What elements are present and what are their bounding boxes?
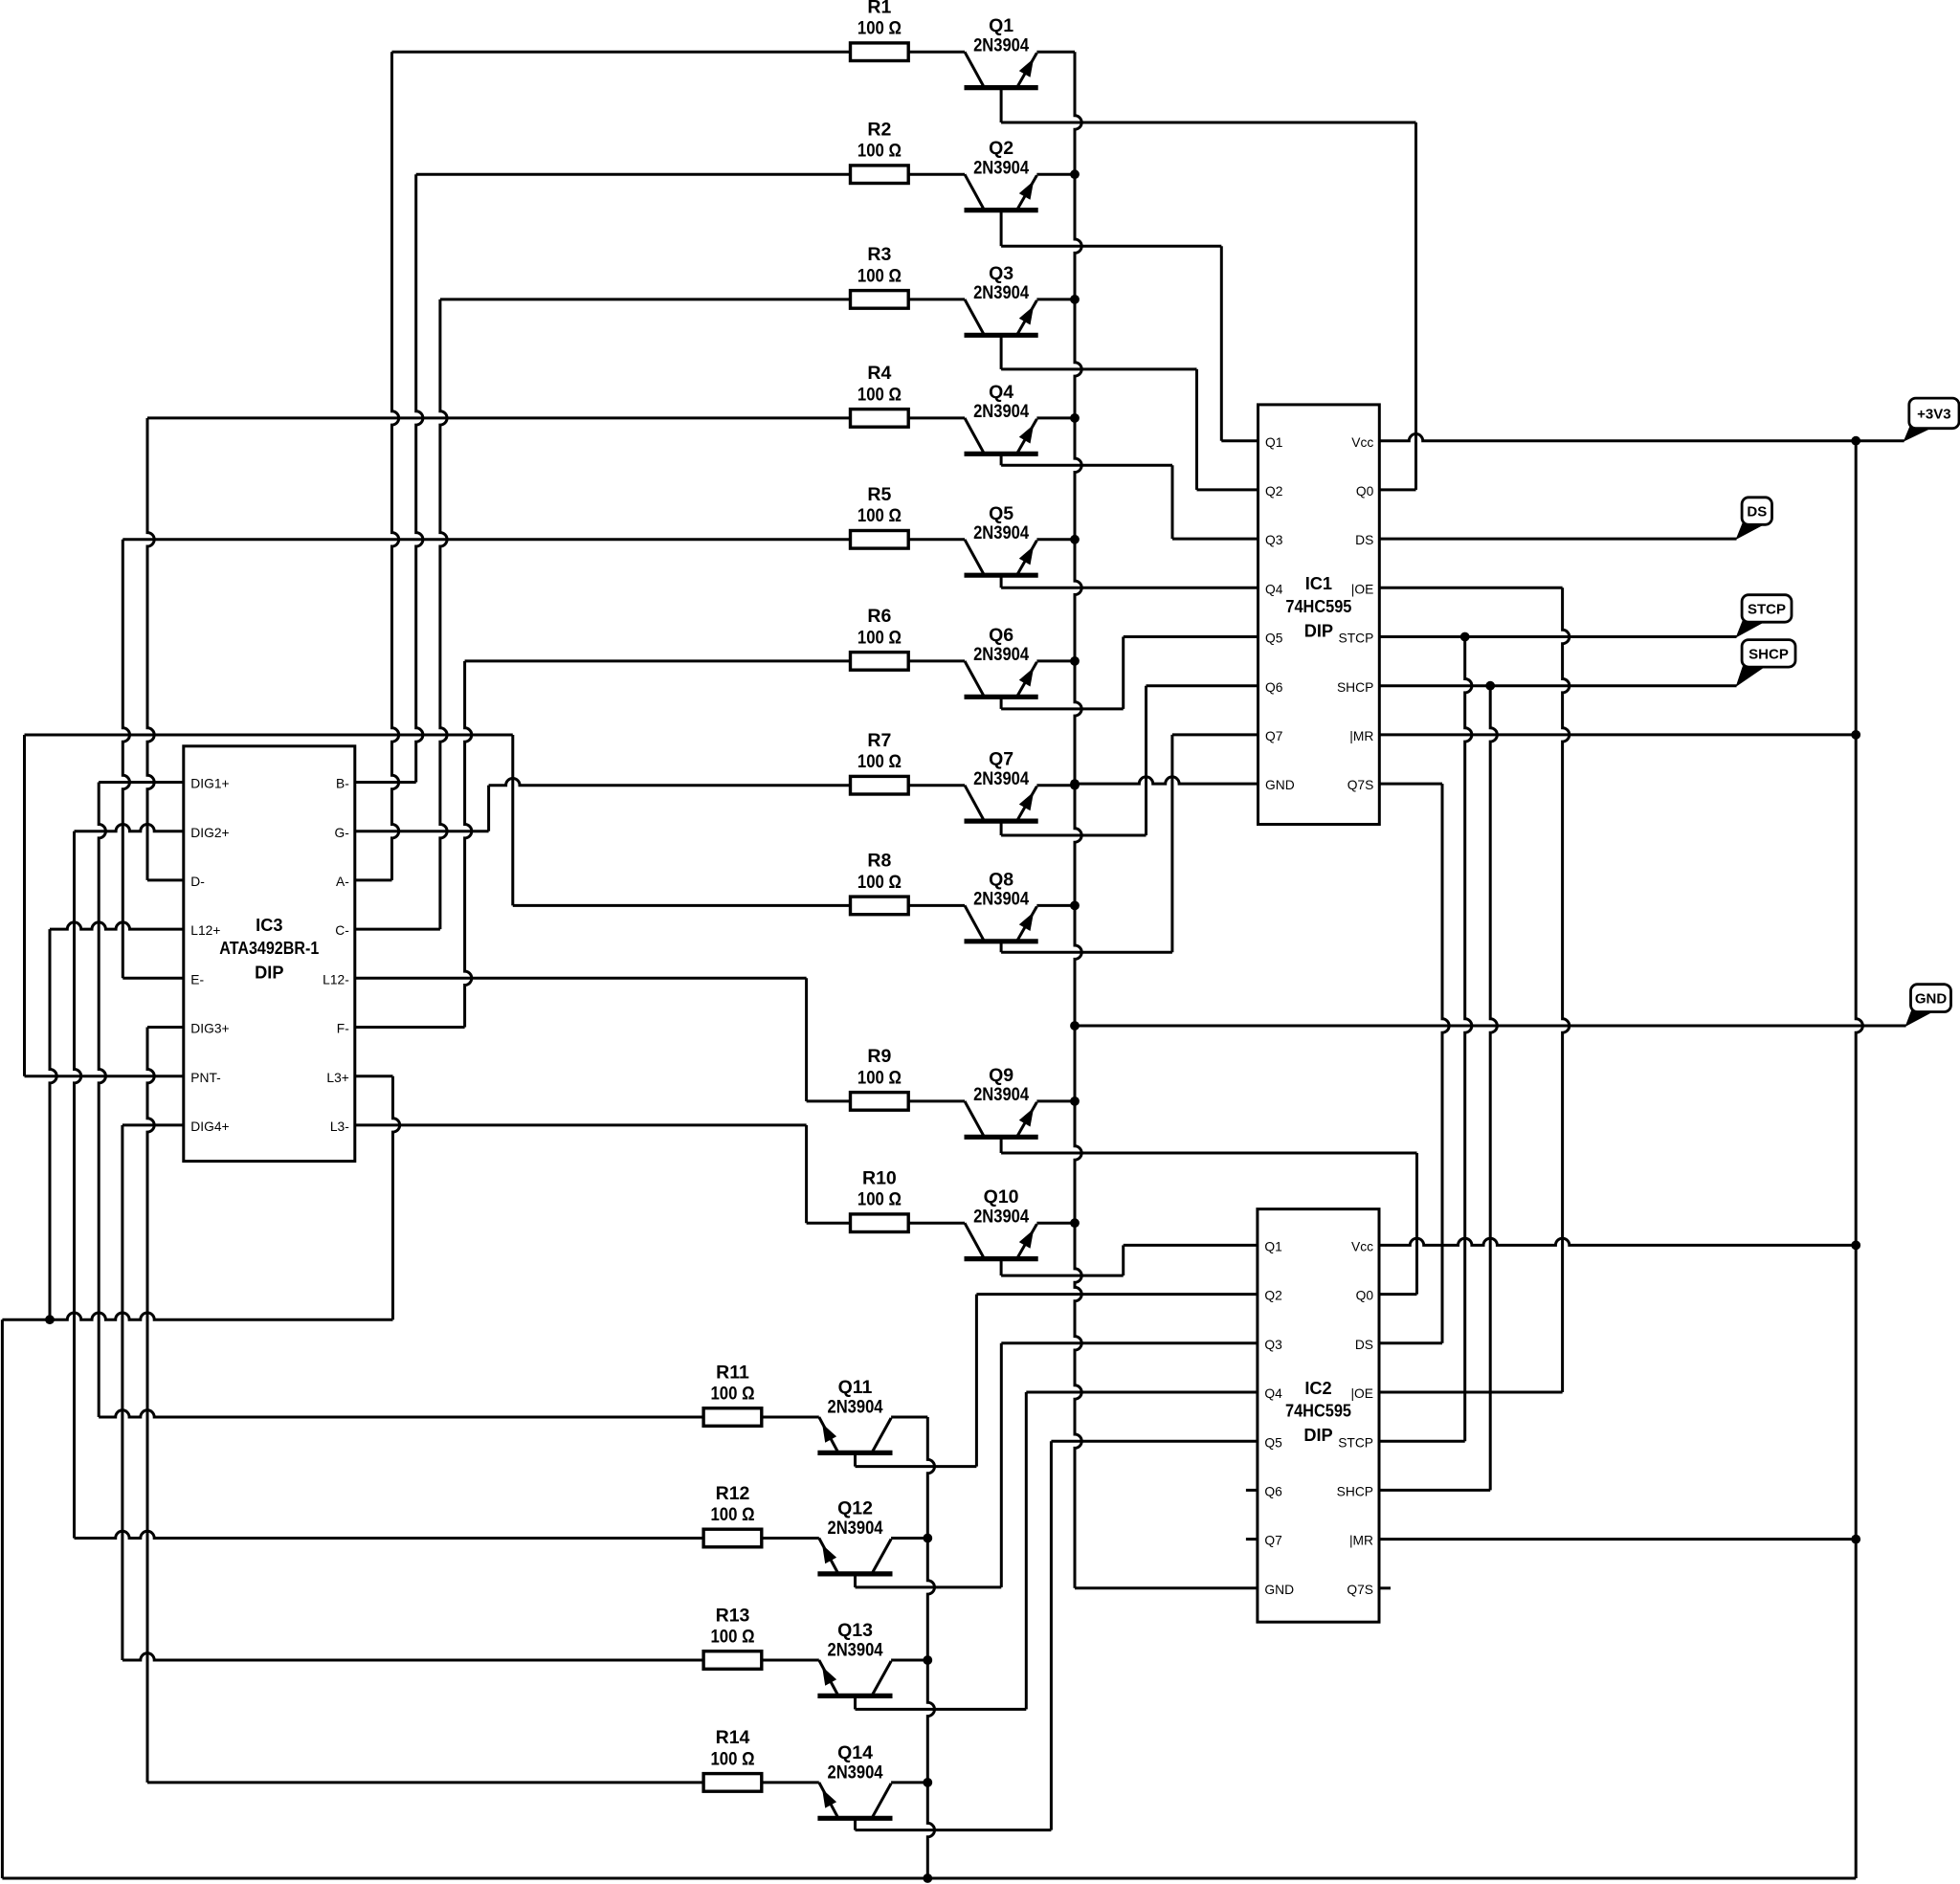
transistor Q9 2N3904 [965,1065,1076,1153]
svg-text:Q7: Q7 [1265,729,1282,743]
svg-text:Q1: Q1 [989,15,1013,36]
wire IC1 STCP to label [1379,635,1736,638]
svg-text:R9: R9 [867,1046,891,1067]
wire R6 base row [465,659,965,662]
wire riser R2 to B- [416,174,423,782]
wire Q3 collector [1001,367,1196,370]
svg-text:PNT-: PNT- [190,1071,220,1085]
svg-text:|MR: |MR [1349,1534,1373,1548]
svg-text:R11: R11 [716,1362,749,1383]
junction IC1 MR on rail [1851,730,1860,740]
svg-text:R8: R8 [867,851,891,872]
svg-text:GND: GND [1915,991,1948,1008]
wire L12+ L3+ junction row [2,1313,392,1319]
wire IC2 Vcc to rail [1379,1238,1856,1245]
wire C- to R3 riser [355,928,440,931]
svg-text:IC2: IC2 [1304,1379,1331,1398]
transistor Q8 2N3904 [965,869,1076,952]
wire IC2 GND to bus [1075,1586,1258,1589]
wire Q2 collector [1001,245,1221,248]
IC IC2 74HC595 DIP [1246,1209,1391,1623]
wire riser IC2 Q3 to Q12 collector [1000,1343,1003,1587]
transistor Q6 2N3904 [965,625,1076,709]
wire IC1 pin Q5 [1124,635,1258,638]
svg-text:Q2: Q2 [1264,1289,1281,1303]
resistor R7 100 Ohm [851,730,909,794]
wire IC1 pin Q7 [1172,733,1258,736]
svg-text:100 Ω: 100 Ω [857,505,902,526]
wire IC2 pin STCP [1379,1440,1465,1443]
wire R12 base row [75,1531,819,1538]
svg-text:2N3904: 2N3904 [973,889,1029,910]
net label DS [1737,498,1772,539]
wire IC2 pin Q3 [1001,1341,1258,1344]
svg-text:2N3904: 2N3904 [828,1396,883,1417]
svg-text:R5: R5 [867,484,891,505]
wire IC1 pin OE [1379,587,1562,589]
svg-text:GND: GND [1264,1583,1294,1597]
svg-text:100 Ω: 100 Ω [857,751,902,772]
junction IC1 GND on GND bus [1070,779,1080,788]
wire IC1 Vcc to +3V3 [1379,434,1904,441]
wire riser DIG3+ to R14 [147,1028,154,1783]
wire DIG3+ net [147,1026,184,1029]
svg-text:R3: R3 [867,244,891,265]
transistor Q10 2N3904 [965,1186,1076,1275]
wire Q4 collector [1001,464,1172,467]
resistor R4 100 Ohm [851,363,909,427]
wire riser Q2 collector to IC1 Q1 [1220,246,1223,441]
svg-text:Q4: Q4 [1265,582,1283,596]
wire riser IC2 Q2 to Q11 collector [975,1295,978,1467]
svg-text:100 Ω: 100 Ω [711,1504,755,1525]
svg-text:2N3904: 2N3904 [973,768,1029,789]
wire riser R8 to PNT- left [23,735,26,1076]
svg-text:100 Ω: 100 Ω [857,1067,902,1088]
svg-text:DIG1+: DIG1+ [190,777,229,791]
wire Q8 collector [1001,951,1172,954]
svg-text:74HC595: 74HC595 [1285,597,1351,616]
svg-text:Q7S: Q7S [1347,1583,1373,1597]
svg-text:Q6: Q6 [1264,1485,1282,1499]
net label SHCP [1737,640,1796,686]
resistor R9 100 Ohm [851,1046,909,1110]
svg-text:STCP: STCP [1748,602,1786,618]
wire A- to R1 riser [355,878,392,881]
junction Q6 emitter on GND bus [1070,656,1080,666]
svg-text:Q0: Q0 [1356,1289,1374,1303]
svg-text:100 Ω: 100 Ω [711,1748,755,1769]
svg-text:IC3: IC3 [256,916,282,935]
wire Q14 collector [856,1829,1052,1831]
svg-text:C-: C- [335,923,349,938]
wire riser L12- to R9 [805,978,808,1101]
junction Q3 emitter on GND bus [1070,295,1080,304]
IC IC1 74HC595 DIP [1258,405,1380,825]
wire R11 base row [99,1410,819,1417]
transistor Q7 2N3904 [965,749,1076,835]
svg-text:Q1: Q1 [1265,435,1282,450]
wire L3+ net [355,1075,393,1077]
wire riser G- to R7 [487,786,490,831]
wire riser IC1 Q5 to Q6 collector [1122,637,1125,709]
svg-text:SHCP: SHCP [1748,646,1789,662]
wire +3V3 left drop [1,1319,4,1878]
svg-text:Q6: Q6 [1265,680,1283,695]
wire +3V3 bottom rail [2,1877,1856,1880]
svg-text:DIP: DIP [1304,622,1333,641]
svg-text:Q5: Q5 [1264,1435,1282,1450]
IC IC3 ATA3492BR-1 DIP [184,746,355,1162]
resistor R12 100 Ohm [703,1483,762,1547]
svg-text:Q10: Q10 [984,1186,1019,1208]
svg-text:100 Ω: 100 Ω [857,265,902,286]
junction Q14 base on bottom bus [923,1778,932,1787]
svg-text:DS: DS [1355,1338,1373,1352]
svg-text:Q4: Q4 [989,382,1013,403]
wire riser L3- to R10 [805,1125,808,1223]
svg-text:Q7S: Q7S [1347,778,1374,792]
wire IC1 SHCP to label [1379,684,1736,687]
junction Q2 emitter on GND bus [1070,169,1080,179]
wire GND net [1075,1025,1906,1028]
svg-text:Q1: Q1 [1264,1240,1281,1254]
junction Q10 emitter on GND bus [1070,1218,1080,1228]
wire riser L3+ down [393,1076,400,1320]
svg-text:+3V3: +3V3 [1917,406,1950,422]
resistor R13 100 Ohm [703,1605,762,1669]
transistor Q1 2N3904 [965,15,1076,122]
wire riser R5 to E- [122,540,129,979]
wire R7 base row [489,779,965,786]
wire R8 to PNT- horizontal [25,734,513,737]
svg-text:2N3904: 2N3904 [828,1639,883,1660]
wire DIG2+ net [75,825,184,831]
wire IC1 pin Q2 [1197,488,1258,491]
wire Q1 collector [1001,122,1415,124]
svg-text:DS: DS [1747,504,1767,521]
wire riser IC2 Q4 to Q13 collector [1025,1392,1028,1709]
wire Q6 collector [1001,707,1124,710]
svg-text:2N3904: 2N3904 [973,157,1029,178]
wire riser R1 to A- [392,52,399,880]
svg-text:L3-: L3- [330,1119,349,1134]
wire riser STCP IC1 to IC2 [1465,637,1472,1442]
wire IC2 pin OE [1379,1391,1563,1394]
wire riser IC2 Q1 to Q10 collector [1122,1245,1125,1275]
svg-text:Q13: Q13 [837,1620,873,1641]
svg-text:Q9: Q9 [989,1065,1013,1086]
wire B- to R2 riser [355,781,416,784]
transistor Q14 2N3904 [817,1742,927,1830]
svg-text:100 Ω: 100 Ω [857,1189,902,1210]
svg-text:Q8: Q8 [989,869,1013,890]
wire IC2 pin Q0 [1379,1293,1417,1296]
wire riser SHCP IC1 to IC2 [1490,686,1497,1491]
svg-text:L12-: L12- [323,972,349,986]
svg-text:ATA3492BR-1: ATA3492BR-1 [219,939,319,958]
svg-text:A-: A- [336,875,349,889]
resistor R1 100 Ohm [851,0,909,61]
svg-text:SHCP: SHCP [1337,680,1373,695]
junction SHCP branch [1485,681,1495,691]
junction L12+ on +3V3 branch [45,1315,55,1324]
svg-text:Q14: Q14 [837,1742,873,1763]
wire riser L12+ down [50,929,56,1319]
junction IC2 Vcc on rail [1851,1241,1860,1251]
svg-text:Q11: Q11 [838,1377,873,1398]
wire PNT- net [25,1075,184,1077]
svg-text:L3+: L3+ [326,1071,348,1085]
wire R1 base row [392,51,966,54]
wire riser Q4 collector to IC1 Q3 [1171,465,1174,539]
svg-text:R12: R12 [716,1483,750,1504]
svg-text:R6: R6 [867,606,891,627]
svg-text:Q5: Q5 [989,503,1013,524]
wire IC2 pin SHCP [1379,1489,1490,1492]
svg-text:L12+: L12+ [190,923,220,938]
resistor R3 100 Ohm [851,244,909,308]
wire IC2 pin Q5 [1051,1440,1258,1443]
svg-text:Q5: Q5 [1265,632,1283,646]
wire IC2 pin Q1 [1124,1244,1258,1247]
svg-text:E-: E- [190,972,204,986]
wire riser IC1 Q6 to Q7 collector [1145,686,1147,835]
wire riser Q3 collector to IC1 Q2 [1195,369,1198,490]
svg-text:DIG2+: DIG2+ [190,826,229,840]
junction IC2 MR on rail [1851,1535,1860,1544]
transistor Q3 2N3904 [965,263,1076,369]
svg-text:2N3904: 2N3904 [973,34,1029,55]
wire D- net [147,878,184,881]
resistor R14 100 Ohm [703,1727,762,1791]
wire IC2 MR to rail [1379,1538,1856,1540]
wire R4 base row [147,416,965,419]
resistor R2 100 Ohm [851,120,909,184]
wire R13 base row [122,1653,819,1660]
svg-text:F-: F- [337,1022,349,1036]
svg-text:Q12: Q12 [837,1498,873,1519]
wire R8 base row [513,904,965,907]
wire IC1 pin Q7S [1379,783,1442,786]
wire L12+ net [50,922,184,929]
resistor R5 100 Ohm [851,484,909,548]
transistor Q11 2N3904 [817,1377,927,1467]
svg-text:R1: R1 [867,0,891,18]
wire base bus bottom [927,1417,934,1878]
wire Q11 collector [856,1465,977,1468]
svg-text:STCP: STCP [1338,1435,1373,1450]
svg-text:STCP: STCP [1339,632,1374,646]
wire E- net [122,977,184,980]
wire Q10 collector [1001,1274,1124,1277]
svg-text:G-: G- [334,826,348,840]
wire R9 base row [807,1099,965,1102]
wire DIG1+ net [99,781,184,784]
wire IC2 pin Q4 [1026,1391,1258,1394]
svg-text:100 Ω: 100 Ω [711,1626,755,1647]
svg-text:2N3904: 2N3904 [973,644,1029,665]
wire riser IC1 Q7 to Q8 collector [1170,735,1173,952]
svg-text:DIG3+: DIG3+ [190,1022,229,1036]
svg-text:2N3904: 2N3904 [973,522,1029,543]
svg-text:100 Ω: 100 Ω [857,384,902,405]
net label +3V3 [1904,398,1959,441]
wire riser DIG1+ to R11 [99,783,105,1418]
wire riser IC2 Q5 to Q14 collector [1050,1441,1053,1829]
svg-text:IC1: IC1 [1305,574,1332,593]
svg-text:100 Ω: 100 Ω [711,1383,755,1404]
wire Q5 collector [1001,587,1258,589]
transistor Q5 2N3904 [965,503,1076,588]
wire IC1 pin Q3 [1172,538,1258,541]
transistor Q2 2N3904 [965,138,1076,246]
svg-text:D-: D- [190,875,205,889]
svg-text:Q3: Q3 [989,263,1013,284]
junction Q12 base on bottom bus [923,1534,932,1543]
svg-text:|OE: |OE [1351,582,1374,596]
wire riser R3 to C- [440,299,447,929]
junction GND net on bus [1070,1021,1080,1031]
wire IC1 pin Q1 [1221,439,1258,442]
junction Q7 emitter on GND bus [1070,781,1080,790]
junction +3V3 rail top [1851,436,1860,446]
wire GND bus [1075,52,1081,1588]
wire Q13 collector [856,1708,1027,1711]
svg-text:SHCP: SHCP [1337,1485,1373,1499]
svg-text:Q6: Q6 [989,625,1013,646]
svg-text:2N3904: 2N3904 [973,282,1029,303]
svg-text:Q2: Q2 [1265,484,1282,499]
svg-text:Q0: Q0 [1356,484,1374,499]
svg-text:DIP: DIP [255,963,283,982]
transistor Q12 2N3904 [817,1498,927,1587]
svg-text:Q3: Q3 [1264,1338,1282,1352]
wire F- to R6 riser [355,1026,465,1029]
junction STCP branch [1460,632,1470,642]
resistor R6 100 Ohm [851,606,909,670]
wire riser Q1 collector to IC1 Q0 [1414,122,1417,490]
wire Q7 collector [1001,834,1146,837]
svg-text:Q2: Q2 [989,138,1013,159]
junction Q13 base on bottom bus [923,1655,932,1665]
wire L3- to R10 [355,1123,807,1126]
wire riser DIG2+ to R12 [75,831,81,1539]
svg-text:2N3904: 2N3904 [973,401,1029,422]
svg-text:Q7: Q7 [989,749,1013,770]
svg-text:R14: R14 [716,1727,750,1748]
svg-text:R4: R4 [867,363,891,384]
svg-text:GND: GND [1265,778,1295,792]
svg-text:100 Ω: 100 Ω [857,141,902,162]
svg-text:Q4: Q4 [1264,1386,1282,1401]
svg-text:Q7: Q7 [1264,1534,1281,1548]
wire +3V3 rail [1856,441,1862,1878]
wire IC2 pin DS [1379,1341,1442,1344]
svg-text:R7: R7 [867,730,891,751]
wire riser Q9 collector to IC2 Q0 [1415,1153,1418,1295]
svg-text:Vcc: Vcc [1351,1240,1373,1254]
wire R5 base row [122,538,965,541]
transistor Q4 2N3904 [965,382,1076,465]
wire riser R6 to F- [465,661,472,1028]
junction Q8 emitter on GND bus [1070,901,1080,911]
svg-text:R2: R2 [867,120,891,141]
svg-text:2N3904: 2N3904 [828,1762,883,1783]
resistor R8 100 Ohm [851,851,909,915]
wire DIG4+ net [122,1123,184,1126]
wire G- to R7 [355,830,489,832]
svg-text:100 Ω: 100 Ω [857,18,902,39]
wire IC1 pin GND to bus [1075,777,1258,784]
wire IC1 MR to +3V3 rail [1379,733,1856,736]
wire riser DIG4+ to R13 [121,1125,123,1660]
svg-text:2N3904: 2N3904 [973,1084,1029,1105]
junction Q9 emitter on GND bus [1070,1097,1080,1106]
wire Q12 collector [856,1585,1002,1588]
net label STCP [1737,595,1793,637]
svg-text:2N3904: 2N3904 [973,1206,1029,1227]
wire L12- to R9 [355,977,807,980]
svg-text:R13: R13 [716,1605,750,1626]
wire R2 base row [416,173,965,176]
svg-text:Vcc: Vcc [1351,435,1373,450]
svg-text:100 Ω: 100 Ω [857,872,902,893]
wire Q9 collector [1001,1152,1416,1155]
svg-text:100 Ω: 100 Ω [857,627,902,648]
wire IC1 pin Q0 [1379,488,1415,491]
svg-text:74HC595: 74HC595 [1285,1402,1351,1421]
wire IC2 pin Q2 [976,1293,1258,1296]
transistor Q13 2N3904 [817,1620,927,1709]
svg-text:|MR: |MR [1349,729,1373,743]
wire IC1 DS to label [1379,538,1736,541]
junction Q4 emitter on GND bus [1070,413,1080,423]
svg-text:DIG4+: DIG4+ [190,1119,229,1134]
net label GND [1906,985,1951,1026]
wire R14 base row [147,1781,819,1784]
svg-text:DIP: DIP [1303,1426,1332,1445]
wire IC1 pin Q6 [1147,684,1258,687]
junction base bus on bottom rail [923,1873,932,1883]
wire riser Q7S to IC2 DS [1442,784,1449,1343]
svg-text:|OE: |OE [1350,1386,1373,1401]
resistor R10 100 Ohm [851,1168,909,1232]
svg-text:DS: DS [1355,533,1373,547]
wire R10 base row [807,1222,965,1225]
svg-text:2N3904: 2N3904 [828,1518,883,1539]
svg-text:B-: B- [336,777,349,791]
junction Q5 emitter on GND bus [1070,535,1080,544]
svg-text:R10: R10 [862,1168,897,1189]
resistor R11 100 Ohm [703,1362,762,1426]
wire riser OE IC1 to IC2 [1563,587,1570,1392]
wire riser R8 [511,735,514,905]
wire R3 base row [440,298,965,300]
svg-text:Q3: Q3 [1265,533,1283,547]
wire riser R4 to D- [147,418,154,880]
